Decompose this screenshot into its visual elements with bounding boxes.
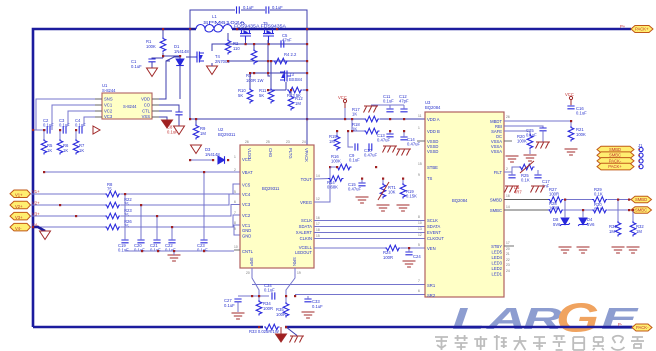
- wire SMBC row: [504, 209, 548, 211]
- resistor R24: [385, 245, 401, 251]
- IC U1 S-8244 protection: [102, 93, 152, 119]
- svg-text:C24: C24: [413, 254, 421, 259]
- VSSD bracket: [417, 140, 425, 142]
- transistor T4: [193, 52, 204, 63]
- svg-text:2: 2: [234, 168, 236, 172]
- svg-text:8: 8: [234, 221, 236, 225]
- svg-text:10: 10: [418, 221, 422, 225]
- ground: [577, 247, 590, 253]
- resistor R18: [364, 128, 380, 134]
- wire: [286, 327, 297, 336]
- thermistor RT1: [380, 183, 386, 199]
- ground: [397, 149, 412, 156]
- wire SR1 row: [252, 284, 425, 286]
- svg-text:VEN: VEN: [427, 246, 436, 251]
- wire: pack- bottom bus: [33, 326, 263, 329]
- svg-text:VREG: VREG: [300, 200, 312, 205]
- wire VBAT row172: [44, 171, 240, 173]
- svg-text:SCLK: SCLK: [427, 218, 438, 223]
- wire U1 left pin 3: [68, 111, 95, 126]
- wire: [253, 44, 255, 49]
- resistor R14: [328, 176, 344, 182]
- svg-text:VLDO: VLDO: [247, 148, 252, 160]
- svg-text:STBE: STBE: [427, 165, 438, 170]
- svg-text:VC3: VC3: [104, 114, 113, 119]
- capacitor C23: [200, 240, 207, 243]
- svg-text:12: 12: [418, 233, 422, 237]
- watermark LARGE logo: [452, 295, 639, 340]
- resistor R7: [73, 139, 79, 155]
- inductor L1: [196, 25, 232, 30]
- svg-text:0.1uF: 0.1uF: [272, 5, 283, 10]
- wire SMBD row: [504, 199, 548, 201]
- svg-text:10: 10: [234, 245, 238, 249]
- IC U2 BQ29311: [240, 145, 314, 268]
- ground: [397, 205, 410, 211]
- wire: [570, 105, 572, 106]
- wire: [195, 119, 197, 124]
- LED pin stubs: [504, 245, 514, 247]
- wire: [582, 210, 584, 218]
- wire: [401, 247, 425, 249]
- wire FILT: [504, 167, 519, 172]
- resistor R26: [105, 224, 121, 230]
- connector V1: [10, 189, 40, 198]
- svg-text:SRN: SRN: [292, 257, 297, 266]
- wire: [249, 73, 251, 88]
- wire gate T1: [245, 40, 247, 44]
- svg-text:VSSD: VSSD: [427, 149, 438, 154]
- svg-text:CLKOUT: CLKOUT: [427, 236, 444, 241]
- wire: [285, 82, 287, 90]
- wire: [290, 90, 292, 95]
- wire gate T5: [268, 40, 270, 44]
- svg-text:21: 21: [506, 252, 510, 256]
- svg-text:0.1uF: 0.1uF: [243, 5, 254, 10]
- svg-text:P-: P-: [618, 322, 623, 327]
- ground: [356, 197, 369, 203]
- svg-text:22: 22: [506, 258, 510, 262]
- svg-text:GND: GND: [242, 234, 251, 239]
- resistor R27: [548, 197, 564, 203]
- resistor R9: [193, 124, 199, 140]
- svg-text:EVENT: EVENT: [427, 230, 441, 235]
- diode D3: [218, 156, 225, 164]
- capacitor C27: [234, 299, 241, 302]
- svg-text:7: 7: [418, 279, 420, 283]
- svg-text:TOUT: TOUT: [301, 177, 313, 182]
- wire: [608, 209, 631, 211]
- svg-text:V4-: V4-: [15, 226, 22, 231]
- svg-text:VC5: VC5: [242, 183, 251, 188]
- wire: [258, 296, 260, 300]
- svg-text:SDATA: SDATA: [427, 224, 441, 229]
- svg-text:SMBD: SMBD: [635, 197, 647, 202]
- wire: [389, 105, 391, 109]
- wire STBE row: [330, 166, 336, 168]
- svg-text:2: 2: [506, 167, 508, 171]
- wire U1 left pin 1: [36, 99, 95, 130]
- VSSA bracket: [504, 140, 512, 142]
- svg-text:SMBC: SMBC: [635, 208, 647, 213]
- svg-text:1: 1: [418, 126, 420, 130]
- svg-text:VCC: VCC: [565, 92, 574, 97]
- capacitor C18: [534, 175, 541, 178]
- ground: [383, 146, 398, 153]
- resistor R17: [364, 116, 380, 122]
- svg-text:15: 15: [418, 162, 422, 166]
- svg-text:17: 17: [316, 222, 320, 226]
- wire: [156, 216, 158, 240]
- capacitor C24: [405, 252, 412, 255]
- svg-text:19: 19: [297, 271, 301, 275]
- wire SCLK: [314, 220, 425, 222]
- resistor R20: [527, 134, 533, 150]
- ground: [506, 156, 519, 162]
- svg-text:9: 9: [234, 227, 236, 231]
- svg-text:L1: L1: [212, 14, 217, 19]
- wire SAFE row: [504, 131, 530, 134]
- connector SMBD: [631, 196, 652, 203]
- junction dots top: [162, 28, 308, 120]
- wire cap rail: [371, 104, 404, 106]
- wire CO to C8: [159, 105, 179, 112]
- svg-text:R4 2.2: R4 2.2: [284, 52, 297, 57]
- svg-text:V1+: V1+: [15, 193, 23, 198]
- svg-text:17: 17: [506, 241, 510, 245]
- svg-text:PLTG: PLTG: [288, 148, 293, 159]
- wire: [211, 63, 213, 66]
- wire row73: [250, 72, 307, 74]
- svg-text:7: 7: [234, 211, 236, 215]
- resistor R19: [400, 183, 406, 199]
- IC U3 BQ2084: [425, 112, 504, 297]
- svg-text:LEDOUT: LEDOUT: [295, 250, 312, 255]
- wire: [190, 159, 213, 161]
- wire: [303, 89, 307, 91]
- svg-text:R71K: R71K: [79, 143, 85, 153]
- zener D4: [578, 218, 588, 226]
- wire: [564, 200, 566, 219]
- capacitor C33: [304, 299, 311, 302]
- resistor R33 sense: [264, 324, 280, 330]
- svg-text:PACK+: PACK+: [608, 164, 622, 169]
- svg-text:VC4: VC4: [242, 192, 251, 197]
- wire: [171, 227, 173, 240]
- varistor RV1: [519, 164, 535, 170]
- svg-text:VPACK: VPACK: [304, 148, 309, 162]
- wire: [408, 248, 410, 252]
- ground: [174, 126, 185, 135]
- svg-text:V3+: V3+: [15, 215, 23, 220]
- svg-text:SDATA: SDATA: [299, 224, 313, 229]
- svg-text:VSSA: VSSA: [491, 149, 502, 154]
- capacitor C16: [567, 106, 574, 109]
- svg-text:GND: GND: [242, 228, 251, 233]
- resistor R1: [160, 37, 166, 53]
- connector V3: [10, 211, 40, 220]
- wire: [227, 33, 229, 39]
- wire: [344, 108, 346, 119]
- svg-text:SMBD: SMBD: [609, 147, 621, 152]
- svg-text:CO: CO: [144, 103, 151, 108]
- capacitor C25: [539, 128, 546, 131]
- wire: outer pack+ bus top: [33, 29, 196, 327]
- resistor R6: [57, 139, 63, 155]
- wire column190: [189, 29, 191, 119]
- svg-text:BQ2084: BQ2084: [425, 105, 441, 110]
- svg-text:TS: TS: [427, 176, 433, 181]
- svg-text:24: 24: [506, 269, 510, 273]
- junction dots right: [564, 120, 634, 211]
- svg-text:XALERT: XALERT: [296, 230, 313, 235]
- resistor R15: [334, 135, 340, 151]
- capacitor C12: [400, 109, 407, 112]
- wire: [186, 56, 195, 58]
- svg-text:R33 0.025R/1W: R33 0.025R/1W: [249, 329, 279, 334]
- svg-text:26: 26: [245, 140, 249, 144]
- wire: [51, 126, 53, 130]
- connector V2: [10, 200, 40, 209]
- resistor R32: [630, 221, 636, 237]
- ground: [290, 336, 305, 343]
- svg-text:6: 6: [418, 289, 420, 293]
- ground: [565, 149, 578, 155]
- watermark chinese company name: [435, 335, 644, 350]
- ground: [364, 106, 379, 113]
- svg-text:CTL: CTL: [142, 109, 151, 114]
- svg-text:18: 18: [316, 228, 320, 232]
- svg-text:RT110K: RT110K: [388, 185, 397, 195]
- pin numbers: [234, 140, 320, 275]
- wire: [59, 130, 61, 139]
- ground: [531, 186, 546, 193]
- wire dec caps: [348, 131, 353, 147]
- capacitor C9: [355, 143, 358, 150]
- resistor R28: [548, 207, 564, 213]
- wire LEDOUT/VEN: [314, 247, 385, 249]
- resistor R8: [105, 191, 121, 197]
- svg-text:LED1: LED1: [492, 272, 503, 277]
- wire: [75, 130, 77, 139]
- wire: [402, 179, 404, 184]
- ground: [302, 312, 315, 318]
- svg-text:14: 14: [316, 174, 320, 178]
- wire row205: [31, 204, 106, 206]
- svg-text:8: 8: [418, 215, 420, 219]
- wire: [403, 131, 405, 137]
- svg-text:PACK+: PACK+: [635, 26, 649, 31]
- svg-text:24: 24: [302, 140, 306, 144]
- svg-text:PACK-: PACK-: [609, 158, 622, 163]
- wire: [268, 40, 270, 76]
- capacitor C20: [137, 240, 144, 243]
- wire U1 left pin 2: [52, 105, 95, 126]
- svg-text:6: 6: [234, 200, 236, 204]
- svg-text:BQ29311: BQ29311: [262, 186, 280, 191]
- capacitor C1: [148, 59, 155, 62]
- svg-text:P+: P+: [620, 24, 626, 29]
- ground: [232, 313, 245, 319]
- pin numbers U3: [418, 114, 510, 293]
- wire: [542, 131, 544, 142]
- capacitor C11: [386, 109, 393, 112]
- wire: [121, 194, 240, 205]
- wire: [43, 130, 45, 139]
- svg-text:26: 26: [506, 115, 510, 119]
- transistor T5: [263, 29, 274, 40]
- ground: [147, 68, 158, 77]
- ground: [559, 247, 572, 253]
- svg-text:FDS9435A FDS9435A: FDS9435A FDS9435A: [234, 23, 286, 28]
- wire: [162, 29, 164, 37]
- capacitor C15: [358, 183, 365, 186]
- svg-text:20: 20: [246, 271, 250, 275]
- svg-text:S-8244: S-8244: [123, 104, 137, 109]
- wire CNTL stub: [234, 249, 240, 251]
- svg-text:CHG: CHG: [268, 148, 273, 157]
- wire: [632, 210, 634, 221]
- capacitor C2: [47, 126, 50, 133]
- svg-text:LED2: LED2: [492, 266, 503, 271]
- wire row216: [31, 215, 106, 217]
- resistor R11: [268, 88, 274, 104]
- wire: [241, 9, 265, 11]
- wire: [121, 205, 240, 217]
- resistor R4: [273, 58, 289, 64]
- svg-text:BQ2084: BQ2084: [452, 198, 468, 203]
- connector SMBC: [631, 207, 652, 214]
- svg-text:5: 5: [234, 190, 236, 194]
- svg-text:SCLK: SCLK: [301, 218, 312, 223]
- wire U1 left pin 4: [84, 117, 95, 126]
- wire: [173, 251, 175, 255]
- wire SRP pin: [252, 268, 259, 296]
- wire: [124, 194, 126, 240]
- ground: [280, 327, 282, 334]
- svg-text:VC2: VC2: [242, 213, 251, 218]
- pin stubs U1: [95, 99, 159, 117]
- ground: [524, 155, 537, 161]
- wire SRN pin: [286, 268, 295, 296]
- capacitor C10: [369, 143, 372, 150]
- node arrow: [93, 126, 100, 134]
- wire VREG: [314, 167, 330, 202]
- wire: [570, 121, 572, 126]
- svg-text:11: 11: [418, 114, 422, 118]
- svg-text:R61K: R61K: [63, 143, 69, 153]
- connector V4: [10, 222, 39, 231]
- svg-text:SR2: SR2: [427, 293, 436, 298]
- wire: [121, 215, 240, 227]
- ground: [612, 247, 625, 253]
- ground: [505, 186, 520, 193]
- svg-text:CNTL: CNTL: [242, 249, 254, 254]
- ground: [168, 255, 181, 261]
- ground: [162, 120, 173, 128]
- svg-text:R290.1K: R290.1K: [594, 187, 603, 197]
- junction dots mid: [189, 118, 410, 328]
- svg-text:16: 16: [316, 216, 320, 220]
- wire: [529, 150, 531, 154]
- svg-text:S-8244: S-8244: [102, 88, 116, 93]
- capacitor C5: [281, 40, 284, 47]
- wire column 307: [306, 29, 308, 145]
- wire: [351, 119, 353, 131]
- svg-text:14: 14: [506, 205, 510, 209]
- capacitor C13: [386, 134, 393, 137]
- svg-text:VC3: VC3: [242, 202, 251, 207]
- wire: [285, 296, 287, 302]
- ground: [191, 145, 202, 154]
- resistor R16: [336, 164, 352, 170]
- transistor T3: [280, 71, 291, 82]
- svg-text:12: 12: [316, 197, 320, 201]
- svg-text:R300.1K: R300.1K: [594, 202, 603, 211]
- svg-text:25: 25: [266, 140, 270, 144]
- resistor R10: [247, 88, 253, 104]
- wire: [564, 209, 592, 211]
- wire row227: [31, 226, 106, 228]
- svg-text:V1+: V1+: [32, 189, 40, 194]
- wire: [248, 251, 250, 255]
- wire: [617, 200, 619, 222]
- svg-text:VSS: VSS: [142, 114, 151, 119]
- ground: [627, 247, 640, 253]
- wire: [179, 66, 181, 100]
- svg-text:5: 5: [418, 243, 420, 247]
- wire CLKIN: [314, 238, 425, 240]
- wire: [166, 57, 180, 61]
- resistor R22: [105, 202, 121, 208]
- ground: [377, 205, 390, 211]
- power VCC: [343, 99, 346, 108]
- svg-text:SRP: SRP: [249, 257, 254, 266]
- junction dots net: [336, 118, 405, 180]
- wire: [237, 302, 239, 312]
- svg-text:16: 16: [506, 194, 510, 198]
- svg-text:VDD: VDD: [141, 97, 150, 102]
- wire: [151, 62, 153, 68]
- resistor R13: [287, 87, 303, 93]
- wire: [336, 131, 338, 135]
- wire VDD to diode row: [159, 61, 170, 99]
- wire: [361, 179, 363, 184]
- resistor R3: [251, 49, 257, 65]
- svg-text:PACK-: PACK-: [636, 325, 649, 330]
- wire row90: [268, 89, 286, 91]
- wire: [564, 199, 592, 201]
- capacitor C34: [272, 292, 275, 299]
- svg-text:LED4: LED4: [492, 255, 503, 260]
- wire: [140, 205, 142, 240]
- ground: [403, 261, 416, 267]
- resistor R12: [288, 95, 294, 111]
- svg-text:A: A: [486, 302, 526, 336]
- capacitor C7: [266, 6, 269, 13]
- wire gnd bracket: [234, 225, 240, 235]
- wire: [382, 179, 384, 184]
- svg-text:SMBC: SMBC: [609, 153, 621, 158]
- svg-text:LED5: LED5: [492, 250, 503, 255]
- wire: [511, 168, 513, 175]
- wire: [162, 53, 164, 58]
- wire: [307, 296, 309, 299]
- wire: [270, 61, 272, 88]
- wire RBI row: [504, 126, 543, 128]
- svg-text:R51K: R51K: [47, 143, 53, 153]
- svg-text:9: 9: [418, 173, 420, 177]
